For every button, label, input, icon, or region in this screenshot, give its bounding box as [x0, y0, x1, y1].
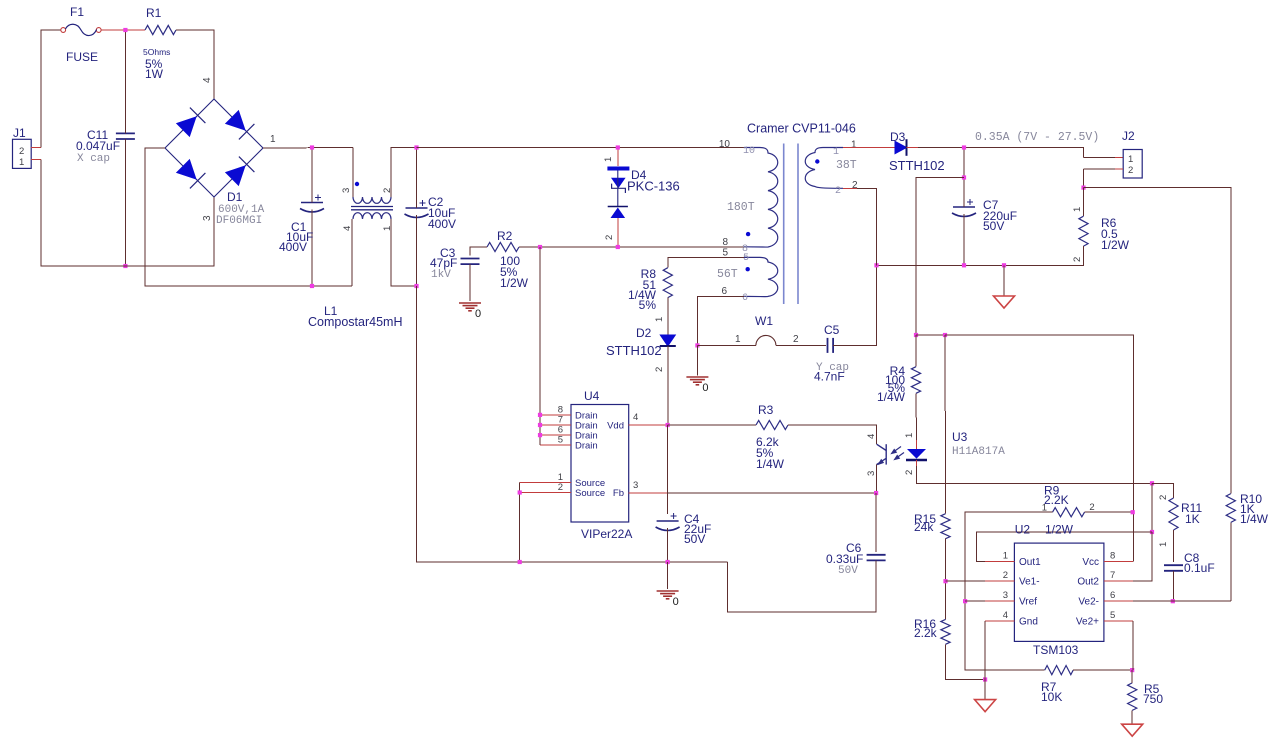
wire pin5 to R8 — [668, 257, 744, 267]
wire node A down — [1151, 483, 1153, 532]
svg-text:Drain: Drain — [575, 441, 598, 452]
svg-text:38T: 38T — [836, 159, 857, 172]
wire Ve2+ down to R7 node — [1132, 621, 1134, 670]
U4 source pin stub 1 — [520, 482, 571, 484]
svg-text:U4: U4 — [584, 389, 600, 403]
wire C1 bottom — [311, 210, 313, 287]
svg-text:3: 3 — [866, 471, 877, 476]
secondary pin2 stub — [843, 187, 857, 189]
U2 pin 1 stub — [985, 561, 1014, 563]
IC U2 TSM103 box — [1014, 543, 1104, 641]
svg-text:H11A817A: H11A817A — [952, 446, 1005, 458]
diode D2 — [660, 335, 675, 346]
svg-text:4: 4 — [202, 77, 213, 83]
J1 pin 2 stub — [31, 147, 41, 149]
svg-text:4: 4 — [342, 226, 353, 231]
U4 drain pin stub 7 — [540, 424, 571, 426]
resistor R7 — [1045, 666, 1074, 675]
wire D4 bottom — [617, 218, 619, 247]
junction C2 bottom — [414, 284, 418, 288]
wire L1 pin4 stub — [351, 219, 353, 286]
svg-text:2: 2 — [793, 334, 799, 345]
junction node A — [1150, 481, 1154, 485]
J2 pin 2 stub — [1115, 168, 1123, 170]
junction Out1 branch — [1150, 530, 1154, 534]
wire L1 pin 3 stub — [352, 148, 354, 198]
capacitor C7 plates — [952, 207, 976, 217]
svg-text:1: 1 — [1003, 551, 1008, 562]
capacitor C8 plates — [1164, 565, 1183, 571]
wire R16 bottom — [946, 644, 986, 679]
junction R7 R5 pin5 — [1130, 668, 1134, 672]
wire C1 top — [311, 148, 313, 203]
wire Vdd to C4 — [667, 425, 669, 514]
wire R3 to opto collector — [788, 425, 877, 444]
transformer primary winding 180T — [744, 148, 778, 248]
wire R8 to D2 — [667, 298, 669, 335]
svg-text:1: 1 — [19, 157, 24, 168]
svg-text:400V: 400V — [428, 217, 456, 231]
wire primary ground rail — [417, 286, 728, 562]
svg-text:0: 0 — [475, 308, 481, 320]
junction Vref line — [963, 599, 967, 603]
junction R15 top node — [943, 333, 947, 337]
wire source down — [519, 483, 521, 562]
ground triangle below R5 — [1122, 724, 1143, 736]
svg-text:10: 10 — [719, 139, 731, 150]
svg-text:7: 7 — [1110, 570, 1115, 581]
svg-text:1: 1 — [1128, 154, 1133, 165]
U2 pin 8 stub — [1104, 561, 1133, 563]
wire R5 top — [1131, 670, 1133, 683]
svg-text:DF06MGI: DF06MGI — [216, 215, 262, 227]
wire to R10 top — [1084, 188, 1231, 494]
svg-text:47pF: 47pF — [430, 256, 457, 270]
svg-text:D1: D1 — [227, 190, 243, 204]
svg-text:2: 2 — [382, 188, 393, 193]
optocoupler U3 phototransistor — [877, 444, 887, 464]
svg-text:1/4W: 1/4W — [1240, 512, 1269, 526]
wire R9 pin1 to R7 line — [965, 512, 1052, 670]
wire secondary ground rail — [877, 246, 1084, 265]
wire drain bus — [539, 247, 541, 445]
wire D4 top — [617, 148, 619, 167]
junction W1 ground node — [695, 343, 699, 347]
svg-text:U3: U3 — [952, 430, 968, 444]
wire pin6 down — [697, 296, 744, 345]
wire R2 right to transformer pin 8 — [519, 246, 744, 248]
resistor R3 — [756, 420, 788, 429]
resistor R10 — [1226, 494, 1235, 523]
wire R7 to R5 node — [1073, 669, 1132, 671]
wire to U2 pin1 Out1 — [976, 532, 1152, 562]
bridge diode D1 bottom-right — [226, 166, 245, 185]
svg-text:D3: D3 — [890, 130, 906, 144]
jumper W1 — [697, 344, 826, 346]
wire J2 pin2 — [1083, 169, 1085, 188]
svg-text:VIPer22A: VIPer22A — [581, 527, 632, 541]
svg-text:Ve2-: Ve2- — [1078, 597, 1099, 608]
capacitor C11 plates — [116, 133, 135, 139]
svg-text:5%: 5% — [639, 298, 657, 312]
svg-text:4: 4 — [633, 412, 638, 423]
U4 source pin stub 2 — [520, 492, 571, 494]
wire C7 top — [963, 148, 965, 208]
wire LED cathode node A — [917, 466, 1153, 483]
svg-text:2.2k: 2.2k — [914, 626, 938, 640]
junction drain — [538, 423, 542, 427]
svg-text:6: 6 — [1110, 590, 1115, 601]
J2 pin 1 stub — [1115, 157, 1123, 159]
svg-text:Ve1-: Ve1- — [1019, 577, 1040, 588]
wire R5 to ground — [1131, 710, 1133, 724]
wire D3 to J2 pin1 — [918, 148, 1084, 158]
svg-text:2: 2 — [19, 146, 24, 157]
wire from J2 pin2 stub — [1084, 168, 1116, 170]
svg-text:1: 1 — [735, 334, 741, 345]
svg-text:J2: J2 — [1122, 129, 1135, 143]
svg-text:1: 1 — [603, 157, 614, 162]
capacitor C4 plates — [656, 521, 680, 531]
svg-text:0.1uF: 0.1uF — [1184, 561, 1215, 575]
wire R1 to bridge pin 4 — [176, 30, 214, 99]
U2 pin 3 stub — [985, 600, 1014, 602]
svg-text:2: 2 — [558, 482, 563, 493]
junction D4 bottom — [616, 245, 620, 249]
svg-text:6: 6 — [742, 293, 748, 304]
svg-text:1kV: 1kV — [431, 269, 451, 281]
svg-text:1/2W: 1/2W — [1101, 238, 1130, 252]
wire R4 node to R15 node — [916, 334, 945, 336]
wire to R15 — [945, 483, 947, 513]
ground 0 below C4 — [657, 591, 679, 599]
svg-text:R1: R1 — [146, 6, 162, 20]
wire secondary pin2 down — [857, 188, 877, 265]
svg-text:1/2W: 1/2W — [500, 276, 529, 290]
bridge diode D1 top-right — [226, 111, 245, 130]
junction drain — [538, 413, 542, 417]
junction C2 top — [414, 145, 418, 149]
resistor R2 — [487, 242, 519, 251]
junction secondary ground left — [874, 263, 878, 267]
capacitor C1 plates — [300, 203, 324, 213]
svg-text:3: 3 — [341, 188, 352, 193]
wire bridge plus rail — [263, 147, 353, 150]
svg-text:10K: 10K — [1041, 690, 1062, 704]
junction C11 bottom rail — [123, 264, 127, 268]
svg-text:TSM103: TSM103 — [1033, 643, 1079, 657]
junction C7 bottom — [962, 263, 966, 267]
U2 pin 5 stub — [1104, 620, 1133, 622]
svg-text:1: 1 — [851, 140, 857, 151]
svg-text:1: 1 — [1072, 207, 1083, 212]
wire L1 pin1 to C2 bottom — [391, 219, 417, 286]
svg-text:0.33uF: 0.33uF — [826, 552, 863, 566]
svg-text:1: 1 — [904, 433, 915, 438]
svg-text:1: 1 — [654, 317, 665, 322]
svg-text:180T: 180T — [727, 201, 755, 214]
bridge diode D1 top-left — [177, 117, 196, 136]
svg-text:1: 1 — [1158, 542, 1169, 547]
capacitor C2 plates — [405, 208, 429, 218]
svg-text:1: 1 — [833, 147, 839, 158]
svg-text:4: 4 — [866, 434, 877, 439]
resistor R15 — [941, 514, 950, 539]
L1 phase dot — [355, 182, 359, 186]
svg-text:Fb: Fb — [613, 488, 624, 499]
resistor R9 — [1053, 508, 1085, 517]
junction ground tap — [1002, 263, 1006, 267]
wire Fb line — [668, 492, 877, 494]
svg-text:5: 5 — [743, 253, 749, 264]
junction R9 Vcc line — [1131, 510, 1135, 514]
wire LED anode — [916, 440, 918, 449]
wire node A to R11 — [1152, 483, 1174, 498]
wire R9 pin2 — [1085, 511, 1133, 513]
wire L1 pin2 to C2 — [391, 148, 417, 198]
svg-text:Vcc: Vcc — [1082, 557, 1099, 568]
wire R6 top — [1083, 188, 1085, 217]
wire C2 top — [416, 148, 418, 209]
wire secondary pin1 to D3 — [843, 147, 895, 149]
svg-text:D2: D2 — [636, 326, 652, 340]
U4 drain pin stub 8 — [540, 414, 571, 416]
svg-text:2: 2 — [1089, 502, 1094, 513]
resistor R8 — [663, 268, 672, 298]
svg-text:5: 5 — [558, 435, 563, 446]
junction C11 top rail — [123, 28, 127, 32]
svg-text:50V: 50V — [684, 532, 705, 546]
junction C1 bottom — [310, 284, 314, 288]
svg-text:PKC-136: PKC-136 — [627, 179, 680, 194]
junction drain — [538, 433, 542, 437]
U4 drain pin stub 5 — [540, 444, 571, 446]
capacitor C6 plates — [867, 555, 886, 561]
svg-text:1: 1 — [382, 226, 393, 231]
svg-text:2: 2 — [852, 180, 858, 191]
svg-text:6: 6 — [721, 286, 727, 297]
wire to ground — [696, 345, 698, 375]
svg-text:2.2K: 2.2K — [1044, 493, 1069, 507]
svg-text:1/4W: 1/4W — [877, 390, 906, 404]
wire Vdd to R3 — [668, 424, 756, 426]
ground triangle below U2 — [975, 700, 996, 712]
IC U4 VIPer22A box — [571, 405, 629, 523]
svg-text:1: 1 — [270, 134, 276, 145]
svg-text:0: 0 — [673, 596, 679, 608]
capacitor C5 plates — [828, 338, 834, 353]
wire Ve1- to U2 pin2 — [946, 580, 986, 582]
svg-text:8: 8 — [722, 237, 728, 248]
svg-text:Out2: Out2 — [1077, 577, 1099, 588]
wire Vref to R9 line — [965, 600, 985, 602]
junction C4 ground rail — [666, 560, 670, 564]
svg-text:Vdd: Vdd — [607, 421, 624, 432]
wire C2 bottom — [416, 215, 418, 286]
wire DC rail to transformer pin 10 — [417, 147, 745, 149]
svg-text:J1: J1 — [13, 126, 26, 140]
svg-text:5Ohms: 5Ohms — [143, 47, 170, 57]
wire R15 top segment — [944, 335, 947, 483]
ground 0 below pin6 — [686, 377, 708, 385]
svg-text:Ve2+: Ve2+ — [1076, 616, 1099, 627]
wire C11 top — [124, 30, 126, 133]
junction Ve1- node — [943, 579, 947, 583]
wire C4 bottom — [667, 528, 669, 562]
svg-text:Compostar45mH: Compostar45mH — [308, 315, 402, 329]
wire to C6 — [875, 493, 877, 552]
resistor R1 — [145, 25, 176, 34]
U2 pin 4 stub — [985, 620, 1014, 622]
optocoupler U3 LED — [907, 449, 926, 459]
transformer secondary winding 38T — [805, 148, 843, 189]
junction D4 top — [616, 145, 620, 149]
junction R2 drain bus — [538, 245, 542, 249]
connector J1 — [13, 139, 32, 168]
wire C11 bottom — [124, 139, 126, 266]
wire to U2 pin7 Out2 — [1133, 532, 1152, 581]
wire to triangle ground — [1003, 265, 1005, 296]
wire J1 pin1 to bridge pin 3 — [41, 160, 214, 267]
wire Ve2- line — [1133, 600, 1231, 602]
diode D3 — [895, 141, 907, 153]
svg-text:5: 5 — [722, 248, 728, 259]
svg-text:5: 5 — [1110, 610, 1115, 621]
svg-text:FUSE: FUSE — [66, 50, 98, 64]
junction source pins — [518, 490, 522, 494]
svg-text:Source: Source — [575, 488, 605, 499]
wire R15 to R16 — [945, 539, 947, 620]
svg-text:U2: U2 — [1015, 523, 1031, 537]
transformer core — [784, 144, 798, 305]
svg-text:3: 3 — [202, 215, 213, 221]
svg-text:Gnd: Gnd — [1019, 616, 1038, 627]
resistor R16 — [941, 619, 950, 644]
svg-text:X cap: X cap — [77, 153, 110, 165]
svg-text:0.35A (7V - 27.5V): 0.35A (7V - 27.5V) — [975, 131, 1099, 144]
wire Vcc to U2 pin8 — [945, 335, 1133, 562]
wire to J2 pin1 stub — [1084, 157, 1116, 159]
transformer phase dots — [746, 232, 750, 236]
ground 0 below C3 — [459, 303, 481, 311]
optocoupler light arrows — [893, 447, 904, 459]
svg-text:2: 2 — [604, 235, 615, 240]
wire C6 bottom loop — [728, 560, 876, 612]
svg-text:1/4W: 1/4W — [756, 457, 785, 471]
junction J2 pin2 node — [1081, 186, 1085, 190]
capacitor C3 plates — [461, 259, 480, 265]
fuse F1 — [61, 28, 66, 33]
U2 pin 6 stub — [1104, 600, 1133, 602]
wire R11 to C8 — [1173, 530, 1175, 562]
svg-text:1/2W: 1/2W — [1045, 523, 1074, 537]
svg-text:R3: R3 — [758, 403, 774, 417]
wire R2 left to C3 — [470, 247, 487, 256]
svg-text:10: 10 — [743, 146, 755, 157]
svg-text:2: 2 — [904, 470, 915, 475]
junction C8 pin6 line — [1171, 599, 1175, 603]
wire C7 bottom — [963, 214, 965, 265]
svg-text:Vref: Vref — [1019, 597, 1037, 608]
transformer aux winding 56T — [744, 257, 778, 296]
U4 Vdd pin stub 4 — [629, 424, 668, 426]
U4 drain pin stub 6 — [540, 434, 571, 436]
connector J2 — [1123, 150, 1142, 179]
svg-text:2: 2 — [1072, 257, 1083, 262]
U2 pin 7 stub — [1104, 580, 1133, 582]
svg-text:STTH102: STTH102 — [606, 343, 662, 358]
resistor R11 — [1169, 498, 1178, 530]
svg-text:STTH102: STTH102 — [889, 158, 945, 173]
junction R4 top — [914, 333, 918, 337]
ground triangle below C7 rail — [994, 296, 1015, 308]
wire R10 bottom — [1230, 522, 1232, 601]
svg-text:750: 750 — [1143, 692, 1163, 706]
svg-text:Cramer CVP11-046: Cramer CVP11-046 — [747, 122, 856, 136]
svg-text:Out1: Out1 — [1019, 557, 1041, 568]
wire Gnd pin down — [984, 621, 986, 700]
J1 pin 1 stub — [31, 159, 41, 161]
svg-text:3: 3 — [1003, 590, 1008, 601]
inductor L1 windings — [353, 197, 391, 219]
wire C8 bottom — [1173, 571, 1175, 601]
svg-text:4.7nF: 4.7nF — [814, 370, 845, 384]
svg-text:2: 2 — [835, 186, 841, 197]
wire D2 to Vdd node — [667, 346, 669, 425]
svg-text:F1: F1 — [70, 5, 84, 19]
junction source ground rail — [518, 560, 522, 564]
svg-text:2: 2 — [1128, 165, 1133, 176]
wire J1 pin2 to fuse — [41, 30, 61, 148]
resistor R5 — [1128, 683, 1137, 710]
wire opto emitter to Fb — [876, 465, 878, 493]
svg-text:1W: 1W — [145, 67, 164, 81]
svg-text:2: 2 — [1003, 570, 1008, 581]
junction Vdd node — [666, 423, 670, 427]
svg-text:400V: 400V — [279, 240, 307, 254]
svg-text:2: 2 — [654, 367, 665, 372]
junction C7 top — [962, 145, 966, 149]
svg-text:3: 3 — [633, 480, 638, 491]
wire bridge minus to L1 pin 4 — [145, 148, 352, 286]
svg-text:24k: 24k — [914, 520, 934, 534]
svg-text:0.047uF: 0.047uF — [76, 139, 120, 153]
svg-text:C5: C5 — [824, 323, 840, 337]
resistor R6 — [1079, 216, 1088, 246]
svg-text:R2: R2 — [497, 229, 513, 243]
wire to ground below C4 — [667, 562, 669, 589]
bridge diode D1 bottom-left — [177, 160, 196, 179]
svg-text:56T: 56T — [717, 268, 738, 281]
wire to R4 — [915, 335, 917, 367]
wire LED cathode stub — [916, 460, 918, 466]
wire R4 to opto LED — [915, 393, 918, 441]
U2 pin 2 stub — [985, 580, 1014, 582]
svg-text:2: 2 — [1158, 495, 1169, 500]
svg-text:8: 8 — [1110, 551, 1115, 562]
svg-text:1K: 1K — [1185, 512, 1200, 526]
svg-text:0: 0 — [702, 382, 708, 394]
resistor R4 — [911, 367, 920, 394]
wire C5 to secondary ground — [833, 265, 876, 345]
junction C1 top — [310, 145, 314, 149]
U4 Fb pin stub 3 — [629, 492, 668, 494]
L1 core — [351, 207, 393, 210]
bridge rectifier D1 outline — [165, 99, 263, 197]
wire C3 to ground — [469, 264, 471, 301]
svg-text:4: 4 — [1003, 610, 1008, 621]
svg-text:W1: W1 — [755, 314, 773, 328]
